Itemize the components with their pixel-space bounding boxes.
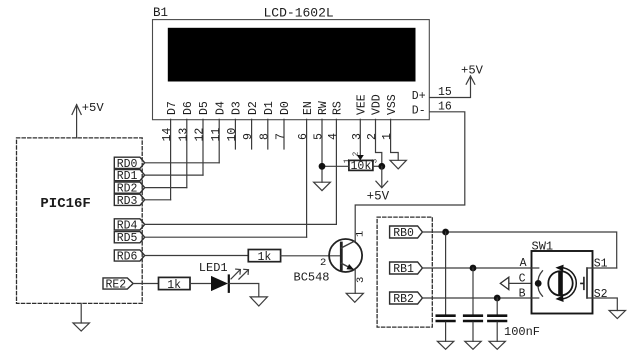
+5V supply at PIC16F (72, 101, 104, 138)
svg-text:RB0: RB0 (393, 227, 414, 240)
wire SW1 S1 (587, 267, 617, 269)
LCD pin 7 D0 (275, 101, 293, 149)
svg-text:D0: D0 (279, 101, 292, 115)
capacitor C2 100nF (464, 268, 482, 341)
wire RD3 to LCD D7 (145, 199, 171, 201)
junction RB1/C2 (470, 265, 477, 272)
ground at C1 (437, 341, 453, 349)
ground at VSS (390, 160, 406, 169)
LCD pin 14 D7 (161, 101, 179, 200)
switch bar S1-S2 (581, 268, 587, 298)
svg-text:D3: D3 (231, 101, 244, 115)
svg-text:BC548: BC548 (294, 271, 330, 285)
svg-text:A: A (520, 257, 527, 270)
svg-text:12: 12 (194, 128, 207, 142)
wire RB1 to SW1 A (422, 267, 531, 269)
svg-text:6: 6 (297, 133, 310, 140)
svg-text:EN: EN (302, 101, 315, 115)
svg-text:3: 3 (351, 133, 364, 140)
LCD pin 6 EN (297, 101, 315, 237)
pin tag RD0 (114, 157, 144, 171)
LCD pin 11 D4 (210, 101, 228, 163)
svg-text:RD6: RD6 (117, 251, 138, 264)
wire RD5 to LCD EN (145, 236, 307, 238)
LCD pin 1 VSS (381, 94, 399, 160)
svg-text:D7: D7 (166, 101, 179, 115)
LCD module B1 outline (153, 20, 430, 120)
svg-text:D6: D6 (182, 101, 195, 115)
ground at C2 (465, 341, 481, 349)
svg-text:RB1: RB1 (393, 263, 414, 276)
svg-text:C: C (519, 272, 526, 285)
svg-text:SW1: SW1 (532, 239, 554, 253)
LCD pin 16 D- wire to transistor collector (355, 101, 465, 241)
node C (535, 280, 542, 287)
svg-text:1k: 1k (167, 279, 181, 292)
wire pot left to RW ground node (322, 165, 349, 167)
+5V supply at VDD (367, 166, 390, 203)
ground at PIC16F (73, 303, 89, 331)
svg-text:9: 9 (242, 133, 255, 140)
wire pot right to +5V node (373, 165, 382, 167)
wire resistor to LED (190, 283, 211, 285)
resistor 1k (LED) (159, 277, 191, 292)
wire RD4 to LCD RS (145, 223, 337, 225)
svg-text:+5V: +5V (461, 64, 484, 78)
ground at transistor (346, 293, 363, 302)
wire RD2 to LCD D6 (145, 187, 187, 189)
ground at C3 (489, 341, 505, 349)
pin tag RD2 (114, 182, 144, 196)
LCD pin 12 D5 (194, 101, 212, 175)
LCD pin 3 VEE (351, 94, 369, 155)
svg-text:D5: D5 (198, 101, 211, 115)
svg-text:RB2: RB2 (393, 293, 414, 306)
ground at S2 (609, 311, 625, 319)
svg-text:B1: B1 (153, 6, 168, 20)
svg-text:1: 1 (381, 133, 394, 140)
connector arrow at SW1 C (500, 277, 531, 289)
svg-text:RD3: RD3 (117, 195, 138, 208)
svg-text:RD4: RD4 (117, 219, 138, 232)
contact A (532, 268, 543, 283)
svg-text:PIC16F: PIC16F (40, 196, 90, 212)
ground at RW (314, 182, 331, 190)
LCD pin 10 D3 (226, 101, 244, 149)
svg-text:D+: D+ (412, 90, 426, 103)
LCD pin 4 RS (327, 101, 345, 224)
LCD pin 13 D6 (177, 101, 195, 188)
LCD pin 5 RW (313, 101, 331, 182)
svg-text:5: 5 (313, 133, 326, 140)
svg-text:2: 2 (353, 152, 361, 157)
LED LED1 (211, 269, 249, 292)
svg-text:VDD: VDD (371, 94, 384, 115)
svg-text:S2: S2 (594, 288, 608, 301)
capacitor C1 100nF (437, 232, 455, 341)
svg-text:D-: D- (412, 105, 426, 118)
pin tag RB1 (390, 262, 423, 276)
svg-text:11: 11 (210, 128, 223, 142)
svg-text:LED1: LED1 (199, 261, 228, 275)
svg-text:1: 1 (343, 158, 351, 163)
LCD screen (168, 28, 416, 82)
LCD pin 8 D1 (258, 101, 276, 149)
pin tag RD1 (114, 170, 144, 184)
svg-text:1: 1 (354, 231, 366, 237)
contact B (532, 285, 543, 298)
LCD pin 2 VDD (366, 94, 384, 166)
transistor Q1 BC548 (320, 231, 367, 283)
wire RD1 to LCD D5 (145, 174, 203, 176)
wire transistor emitter to ground (354, 269, 356, 293)
LCD pin 9 D2 (242, 101, 260, 149)
pin tag RB0 (390, 226, 423, 240)
svg-text:RD5: RD5 (117, 232, 138, 245)
svg-text:VSS: VSS (386, 94, 399, 115)
junction RB2/C3 (494, 295, 501, 302)
wire resistor to transistor base (281, 255, 342, 257)
ground at LED (250, 297, 267, 306)
pin tag RE2 (103, 278, 133, 292)
knob (548, 271, 572, 295)
svg-text:RD1: RD1 (117, 170, 138, 183)
svg-text:VEE: VEE (356, 94, 369, 115)
svg-text:B: B (519, 287, 526, 300)
svg-text:3: 3 (355, 277, 367, 283)
port box RB dashed (377, 217, 432, 327)
rotation arc arrow (561, 268, 577, 299)
pin tag RD4 (114, 219, 144, 233)
rotary switch SW1 (532, 251, 593, 314)
svg-text:+5V: +5V (367, 189, 390, 203)
wire RB0 to SW1 S1 (422, 232, 616, 268)
wire RD6 to resistor (145, 255, 249, 257)
svg-text:RS: RS (332, 101, 345, 115)
LCD pin 15 D+ (412, 76, 471, 103)
junction RB0/C1 (442, 229, 449, 236)
svg-text:D4: D4 (214, 101, 227, 115)
svg-text:+5V: +5V (82, 101, 105, 115)
potentiometer 10k (343, 152, 379, 174)
svg-text:RE2: RE2 (105, 279, 126, 292)
svg-text:D2: D2 (247, 101, 260, 115)
svg-text:1k: 1k (257, 251, 271, 264)
wire SW1 S2 to ground (587, 298, 617, 311)
capacitor C3 100nF (488, 298, 506, 341)
svg-text:LCD-1602L: LCD-1602L (264, 5, 334, 20)
svg-text:3: 3 (371, 158, 379, 163)
junction VDD/pot (378, 163, 385, 170)
svg-text:2: 2 (320, 257, 326, 269)
pin tag RD6 (114, 250, 144, 264)
svg-text:10k: 10k (351, 160, 372, 173)
pin tag RB2 (390, 292, 423, 306)
svg-text:D1: D1 (263, 101, 276, 115)
resistor 1k (base) (248, 250, 280, 265)
svg-text:100nF: 100nF (504, 325, 540, 339)
pin tag RD3 (114, 194, 144, 208)
wire RD0 to LCD D4 (145, 162, 220, 164)
wire RB2 to SW1 B (422, 297, 531, 299)
svg-text:4: 4 (327, 133, 340, 140)
svg-text:7: 7 (275, 133, 288, 140)
svg-text:2: 2 (366, 133, 379, 140)
svg-text:13: 13 (177, 128, 190, 142)
+5V supply at pin 15 (461, 64, 484, 85)
junction RW/pot (319, 163, 326, 170)
svg-text:RW: RW (317, 101, 330, 115)
pin tag RD5 (114, 232, 144, 246)
svg-text:10: 10 (226, 128, 239, 142)
wire LED to ground (229, 284, 259, 297)
svg-text:8: 8 (258, 133, 271, 140)
PIC16F microcontroller box (17, 138, 143, 304)
wire RE2 to resistor (133, 283, 158, 285)
svg-text:14: 14 (161, 128, 174, 142)
